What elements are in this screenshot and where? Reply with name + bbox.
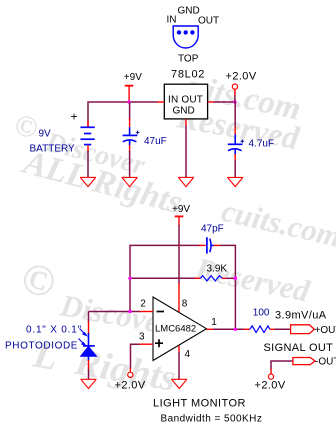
svg-text:9V: 9V <box>39 129 52 140</box>
svg-text:4.7uF: 4.7uF <box>249 139 275 150</box>
photodiode light arrows <box>79 329 87 346</box>
capacitor C2 4.7uF <box>228 135 244 162</box>
terminal +2.0V (signal out) <box>268 369 273 380</box>
pin 2 lead (red) <box>139 311 154 313</box>
junction node (pin2 / feedback) <box>128 310 131 313</box>
svg-text:2: 2 <box>140 298 146 309</box>
svg-text:OUT: OUT <box>198 16 219 27</box>
svg-text:LIGHT MONITOR: LIGHT MONITOR <box>153 398 246 410</box>
svg-text:8: 8 <box>182 299 188 310</box>
svg-text:3.9K: 3.9K <box>207 264 228 275</box>
battery B1 9V <box>81 121 95 152</box>
resistor R2 100 <box>244 326 276 333</box>
wire: node down to 4.7uF <box>234 102 236 128</box>
pin 1 lead (red) <box>207 328 214 330</box>
terminal +2.0V (pin 3) <box>128 368 133 377</box>
wire: resistor to +OUT connector <box>275 328 292 330</box>
pin 3 lead (red) <box>139 343 154 345</box>
terminal +2.0V (top) <box>232 84 237 102</box>
junction node (right vert / 3.9K) <box>234 277 237 280</box>
svg-text:©: © <box>11 108 41 146</box>
wire: feedback top right segment <box>220 245 235 330</box>
svg-text:PHOTODIODE: PHOTODIODE <box>5 341 78 352</box>
power symbol +9V (top) <box>125 86 134 102</box>
svg-text:SIGNAL OUT: SIGNAL OUT <box>264 342 334 354</box>
svg-text:TOP: TOP <box>178 54 199 65</box>
wire: pin 3 to +2.0V terminal <box>131 344 140 369</box>
svg-text:+2.0V: +2.0V <box>226 71 257 83</box>
svg-text:47pF: 47pF <box>201 224 224 235</box>
svg-text:Reserved: Reserved <box>192 250 314 309</box>
pin OUT lead (red) <box>208 101 215 103</box>
photodiode D1 <box>81 312 97 371</box>
wire: +9V down to pin 8 <box>178 225 180 284</box>
junction node at +9V/47uF <box>127 100 130 103</box>
wire: regulator OUT to +2.0V node <box>214 101 236 103</box>
pin 8 lead (red) <box>178 283 180 312</box>
svg-text:4: 4 <box>185 349 191 360</box>
watermark layer <box>11 69 336 400</box>
svg-text:100: 100 <box>253 308 270 319</box>
pin GND lead (red) <box>185 119 187 127</box>
svg-text:GND: GND <box>173 106 195 117</box>
wire: feedback top (47pF) left segment <box>130 245 200 311</box>
svg-text:+OUT: +OUT <box>315 325 336 336</box>
svg-text:+: + <box>71 110 78 124</box>
wire: battery to ground <box>87 151 89 177</box>
svg-text:47uF: 47uF <box>144 136 167 147</box>
ground (photodiode) <box>81 379 97 388</box>
svg-text:3: 3 <box>139 331 145 342</box>
connector -OUT <box>293 358 315 365</box>
ground (battery) <box>80 177 96 186</box>
power symbol +9V (op-amp) <box>175 216 184 226</box>
wire: battery top to regulator IN <box>88 102 158 127</box>
junction node (output) <box>234 328 237 331</box>
wire: output node <box>213 328 244 330</box>
pin 4 lead and wire to ground <box>178 346 180 354</box>
wire: 47uF top lead from junction <box>129 102 131 120</box>
pin IN lead (red) <box>157 101 164 103</box>
svg-text:IN: IN <box>167 15 177 26</box>
ground (regulator) <box>178 177 194 186</box>
regulator U2 78L02 box <box>164 84 207 119</box>
svg-text:BATTERY: BATTERY <box>30 144 76 155</box>
svg-text:Bandwidth = 500KHz: Bandwidth = 500KHz <box>161 414 263 425</box>
resistor R1 3.9K <box>195 276 227 281</box>
op-amp U1 LMC6482 <box>153 297 207 361</box>
wire: 47uF to ground <box>129 151 131 177</box>
ground (47uF) <box>122 177 138 186</box>
capacitor C3 47pF <box>199 237 221 253</box>
wire: feedback middle (3.9K) left segment <box>130 277 196 279</box>
svg-text:-OUT: -OUT <box>315 357 336 368</box>
svg-text:1: 1 <box>211 317 217 328</box>
capacitor C1 47uF <box>123 127 140 152</box>
svg-text:+2.0V: +2.0V <box>115 380 146 392</box>
svg-text:78L02: 78L02 <box>171 69 205 81</box>
svg-text:0.1" X 0.1": 0.1" X 0.1" <box>26 325 82 336</box>
wire: 3.9K to right vertical <box>226 277 235 279</box>
svg-text:GND: GND <box>178 6 200 17</box>
ground (4.7uF) <box>227 177 243 186</box>
junction node at +2.0V/4.7uF <box>233 100 236 103</box>
svg-text:©: © <box>16 252 60 308</box>
wire: +2.0V to -OUT connector <box>271 361 293 370</box>
svg-text:3.9mV/uA: 3.9mV/uA <box>275 310 327 322</box>
TO-92 package top view U2 outline <box>173 26 198 48</box>
svg-text:+9V: +9V <box>172 204 190 215</box>
svg-text:+9V: +9V <box>124 72 142 83</box>
svg-text:IN OUT: IN OUT <box>168 95 203 106</box>
svg-text:+2.0V: +2.0V <box>255 380 286 392</box>
wire: 4.7uF to ground <box>234 160 236 177</box>
wire: regulator GND to ground <box>185 126 187 178</box>
ground (op-amp pin 4) <box>171 379 187 388</box>
connector +OUT <box>291 325 315 334</box>
svg-text:LMC6482: LMC6482 <box>155 324 196 335</box>
wire: pin 2 to photodiode and junction <box>89 311 140 313</box>
junction node (left vert / 3.9K) <box>128 277 131 280</box>
wire: photodiode to ground <box>88 369 90 379</box>
